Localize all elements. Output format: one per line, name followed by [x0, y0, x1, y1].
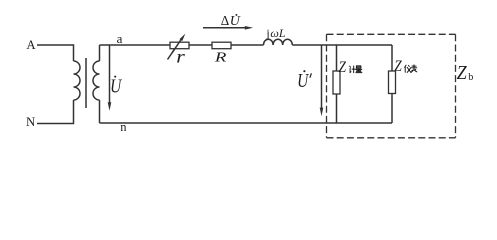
svg-text:a: a	[117, 31, 123, 46]
svg-text:R: R	[214, 49, 227, 65]
svg-text:A: A	[26, 38, 36, 52]
svg-text:Δ: Δ	[221, 13, 229, 28]
svg-text:U: U	[110, 74, 123, 97]
svg-text:n: n	[120, 120, 127, 134]
svg-text:r: r	[176, 47, 185, 67]
svg-text:U: U	[297, 69, 310, 92]
svg-text:Z: Z	[339, 59, 347, 76]
svg-text:j: j	[265, 26, 269, 40]
svg-text:Z: Z	[457, 62, 468, 84]
svg-text:b: b	[468, 72, 473, 83]
svg-text:N: N	[26, 115, 35, 129]
svg-text:ωL: ωL	[270, 26, 285, 40]
svg-text:U: U	[230, 14, 241, 29]
svg-text:Z: Z	[394, 58, 402, 75]
